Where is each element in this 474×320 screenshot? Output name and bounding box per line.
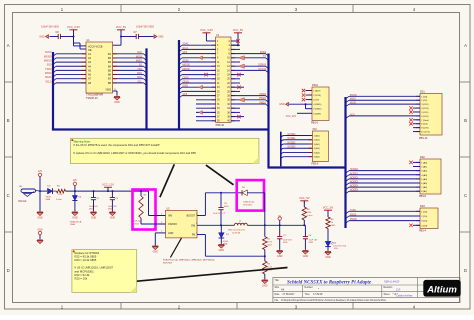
svg-text:PWM1: PWM1 (259, 98, 267, 100)
wire X1 pin 34 (231, 107, 235, 109)
bus left of U1 (52, 52, 54, 130)
wire BOOST (197, 215, 205, 217)
bus right of X1 (267, 54, 269, 168)
svg-text:MISO: MISO (136, 60, 142, 63)
svg-text:VCC_5V: VCC_5V (323, 206, 334, 210)
wire DS1 pin 2 (416, 99, 420, 101)
wire U1 B4 (113, 65, 144, 67)
wire DS3 pin 1 (416, 210, 420, 212)
wire DS1 pin 5 (416, 111, 420, 113)
wire L1 out (247, 224, 304, 226)
svg-text:RXD0: RXD0 (350, 214, 357, 216)
svg-text:10uF 50V 2.2: 10uF 50V 2.2 (213, 213, 226, 215)
svg-text:GND: GND (105, 88, 111, 91)
capacitor C3 (213, 192, 229, 227)
svg-text:1 (A0): 1 (A0) (421, 161, 427, 164)
wire X01 pin 1 (284, 135, 312, 137)
resistor R2 (134, 190, 147, 225)
svg-text:VCC_12V: VCC_12V (102, 183, 114, 187)
connector DS1 (419, 91, 442, 141)
wire DS2 pin 6 (416, 182, 420, 184)
wire DS2 pin 4 (416, 174, 420, 176)
svg-text:R22 = 95.3k 0805: R22 = 95.3k 0805 (75, 255, 97, 259)
power port 12V (tvs) (73, 180, 78, 192)
svg-text:1 (B07): 1 (B07) (313, 91, 320, 93)
svg-text:6 (A5): 6 (A5) (421, 182, 427, 185)
svg-text:GP4: GP4 (183, 52, 188, 54)
svg-text:R23 = 10.2k 0805: R23 = 10.2k 0805 (75, 258, 97, 262)
svg-text:BOOST: BOOST (187, 215, 196, 218)
svg-text:3 (7Y): 3 (7Y) (313, 100, 319, 102)
svg-text:PBS-4: PBS-4 (419, 229, 427, 232)
svg-text:RXD: RXD (137, 72, 142, 75)
svg-text:2 (GY5): 2 (GY5) (313, 95, 321, 97)
svg-text:GND: GND (303, 255, 309, 258)
svg-text:4 (A3): 4 (A3) (421, 174, 427, 177)
wire VCC_3.3V to U1 (73, 30, 75, 46)
connector DS3 (419, 205, 438, 232)
wire SW (197, 224, 235, 226)
wire U1 A3 (56, 61, 86, 63)
ground under jack (39, 191, 41, 211)
svg-text:2 (D1): 2 (D1) (421, 216, 427, 218)
regulator U2 (166, 207, 198, 238)
wire FB (197, 234, 205, 236)
svg-text:MOSI: MOSI (350, 103, 356, 105)
wire X1 pin 12 (231, 61, 235, 63)
wire X01 pin 6 (284, 156, 312, 158)
gnd port right of C7 (154, 35, 164, 39)
wire X1 pin 33 (212, 107, 216, 109)
svg-text:Schield NCS5XX to Raspberry Pi: Schield NCS5XX to Raspberry Pi Adapte (287, 280, 372, 285)
svg-text:PWD0: PWD0 (259, 94, 266, 96)
power flag VCC_12V (102, 183, 114, 191)
wire DS2 pin 2 (416, 166, 420, 168)
svg-text:VCCA VCCB: VCCA VCCB (88, 45, 103, 48)
wire X1 pin 15 (212, 69, 216, 71)
svg-text:and MCP16301:: and MCP16301: (75, 269, 95, 273)
svg-text:A4: A4 (281, 288, 285, 292)
wire X1 pin 21 (212, 82, 216, 84)
svg-text:2.0: 2.0 (395, 288, 401, 292)
resistor R3 0 ohm (299, 196, 313, 226)
svg-text:3 (A2): 3 (A2) (314, 143, 320, 146)
wire PS01 pin 3 (306, 99, 313, 101)
ground under U2 (152, 244, 158, 253)
capacitor C1 (89, 190, 100, 211)
wire DS1 pin 7 (416, 119, 420, 121)
wire U1 B8 (113, 82, 144, 84)
wire DS2 pin 7 (416, 186, 420, 188)
svg-text:SMD 10.0x10.0mm: SMD 10.0x10.0mm (228, 230, 245, 232)
svg-text:RXD0: RXD0 (260, 52, 267, 54)
wire U1 A1 (56, 53, 86, 55)
wire DS1 pin 10 (416, 131, 420, 133)
svg-text:MISO0: MISO0 (183, 69, 191, 71)
resistor R1 0 ohm (53, 186, 66, 201)
svg-text:GND: GND (219, 249, 225, 252)
svg-text:1: 1 (161, 231, 162, 233)
svg-text:SS0: SS0 (47, 64, 52, 67)
power flag VCC_5V (X1) (233, 28, 244, 36)
bus left of X1 (178, 40, 180, 130)
svg-text:Number: Number (305, 286, 313, 289)
svg-text:97.3k: 97.3k (267, 242, 272, 244)
wire DS2 pin 5 (416, 178, 420, 180)
wire X1 pin 9 (212, 57, 216, 59)
wire X1 pin 28 (231, 95, 235, 97)
wire DS2 pin 3 (416, 170, 420, 172)
wire D5 to output (247, 192, 264, 194)
svg-text:MISO: MISO (350, 99, 356, 101)
title block (273, 278, 460, 303)
svg-text:1 (D0): 1 (D0) (421, 211, 427, 213)
wire DS3 pin 3 (416, 220, 420, 222)
wire U1 GND pin 11 (113, 90, 117, 92)
svg-text:GND: GND (114, 101, 120, 104)
svg-text:VCC_5V: VCC_5V (299, 196, 310, 200)
svg-text:27.08.2017: 27.08.2017 (283, 293, 296, 296)
wire X1 pin 8 (231, 53, 235, 55)
svg-text:DCRX0: DCRX0 (258, 65, 267, 67)
svg-text:PS01: PS01 (312, 84, 319, 87)
svg-text:B: B (464, 118, 467, 123)
svg-text:Altium: Altium (426, 284, 457, 295)
bus DS column (344, 97, 346, 228)
svg-text:D: D (464, 268, 467, 273)
svg-text:Sheet: Sheet (384, 293, 390, 296)
wire DS2 pin 1 (416, 161, 420, 163)
wire U1 A2 (56, 57, 86, 59)
svg-text:4 (A3): 4 (A3) (314, 147, 320, 150)
wire X1 pin 37 (212, 116, 216, 118)
svg-text:RXD0: RXD0 (45, 72, 52, 75)
svg-text:1 (A0): 1 (A0) (314, 135, 320, 138)
svg-text:MISO0: MISO0 (44, 60, 52, 63)
wire DS1 pin 1 (416, 95, 420, 97)
svg-text:DS2: DS2 (420, 156, 425, 159)
svg-text:PBS-6: PBS-6 (311, 121, 319, 124)
svg-text:GND: GND (158, 36, 164, 39)
svg-text:0 ohm: 0 ohm (56, 199, 62, 201)
svg-text:5 (GND): 5 (GND) (313, 109, 321, 111)
wire DS1 pin 4 (416, 107, 420, 109)
svg-text:7 (A6): 7 (A6) (421, 186, 427, 189)
svg-text:A: A (7, 43, 10, 48)
svg-text:GND: GND (91, 216, 97, 219)
svg-text:R22 = 52.3k: R22 = 52.3k (75, 273, 91, 277)
svg-text:VCC_5V: VCC_5V (116, 25, 127, 29)
svg-text:5 (A4): 5 (A4) (314, 151, 320, 154)
wire X1 pin 10 (231, 57, 235, 59)
svg-text:SMA: SMA (70, 223, 75, 226)
wire X1 pin 18 (231, 74, 235, 76)
note warning (71, 138, 259, 163)
wire X1 pin 36 (231, 111, 235, 113)
svg-text:MOSI0: MOSI0 (44, 55, 52, 58)
highlight box D5 (237, 180, 264, 211)
svg-text:GND: GND (39, 36, 45, 39)
wire X01 pin 2 (284, 139, 312, 141)
svg-text:TSSOP-20: TSSOP-20 (86, 97, 98, 100)
svg-text:*: * (318, 287, 319, 291)
wire X1 pin 39 (212, 120, 216, 122)
bus entry A01 (280, 132, 282, 167)
connector J1 DC jack (18, 186, 38, 203)
svg-text:GP5: GP5 (183, 94, 188, 96)
svg-text:6: 6 (196, 223, 197, 225)
note replace values (72, 250, 137, 293)
svg-text:3 (D2): 3 (D2) (421, 221, 427, 223)
svg-text:Revision: Revision (384, 287, 394, 289)
svg-text:SCK: SCK (350, 114, 355, 116)
svg-text:NODE4: NODE4 (350, 186, 359, 188)
power flag VCC_3.3V (U1) (67, 25, 80, 33)
svg-text:DCTX0: DCTX0 (258, 69, 266, 71)
svg-text:0 ohm: 0 ohm (307, 215, 313, 217)
bus to right connectors (268, 166, 346, 168)
wire X1 pin 4 (231, 44, 235, 46)
svg-text:TX: TX (263, 56, 266, 58)
wire X1 pin 14 (231, 65, 235, 67)
wire U1 A6 (56, 74, 86, 76)
svg-text:VCC_3.3V: VCC_3.3V (67, 25, 80, 29)
svg-text:CE0N: CE0N (183, 77, 189, 79)
svg-text:8: 8 (196, 213, 197, 215)
svg-text:6 (D15): 6 (D15) (421, 116, 429, 118)
ground under D1 (218, 243, 224, 252)
svg-text:1 (D0): 1 (D0) (421, 96, 427, 98)
gnd port left of C8 (39, 35, 48, 39)
wire X1 pin 17 (212, 74, 216, 76)
svg-text:SCL1: SCL1 (183, 48, 189, 50)
svg-text:4 (D3): 4 (D3) (421, 225, 427, 227)
svg-text:PBS-10: PBS-10 (419, 137, 428, 140)
svg-text:SOT23-8: SOT23-8 (163, 262, 173, 264)
wire X1 pin 32 (231, 103, 235, 105)
svg-text:Date: Date (275, 293, 281, 296)
wire PS01 pin 6 VCC_12V (297, 112, 312, 114)
svg-text:GND: GND (325, 256, 331, 259)
svg-text:R23 = 10k: R23 = 10k (75, 277, 88, 281)
power flag VCC_5V (U1) (116, 25, 127, 33)
wire DS1 pin 3 (416, 103, 420, 105)
wire X1 pin 25 (212, 90, 216, 92)
Altium logo (423, 280, 460, 297)
resistor R4 (323, 206, 336, 242)
svg-text:PWD1: PWD1 (259, 102, 266, 104)
svg-text:MOSI0: MOSI0 (183, 65, 191, 67)
svg-text:If the U5 IC RT8278 is used, t: If the U5 IC RT8278 is used, the compone… (74, 143, 161, 147)
svg-text:X01: X01 (312, 128, 317, 131)
LED D2 (325, 241, 346, 250)
wire X1 pin 38 (231, 116, 235, 118)
capacitor C7 out (277, 225, 292, 249)
wire X01 pin 3 (284, 143, 312, 145)
svg-text:1k: 1k (331, 222, 333, 224)
svg-text:VCC_12V: VCC_12V (286, 116, 297, 118)
wire U1 B6 (113, 74, 144, 76)
wire DS3 pin 2 (416, 215, 420, 217)
svg-text:10 (D71): 10 (D71) (421, 132, 430, 134)
wire X1 pin 3 (212, 44, 216, 46)
svg-text:TXD0: TXD0 (350, 210, 357, 212)
svg-text:NODE0: NODE0 (288, 134, 297, 136)
wire U1 A7 (56, 78, 86, 80)
inductor L1 (228, 220, 247, 234)
bus horizontal main (52, 128, 269, 130)
svg-text:NODE1: NODE1 (288, 138, 297, 140)
svg-text:GND: GND (279, 103, 285, 106)
wire PS01 pin 2 (306, 94, 313, 96)
svg-text:5 (A4): 5 (A4) (421, 178, 427, 181)
wire PS01 gnd pins (289, 103, 312, 105)
leader note to D5 (206, 165, 234, 185)
wire X1 pin 26 (231, 90, 235, 92)
wire X1 pin 11 (212, 61, 216, 63)
wire U1 B2 (113, 57, 144, 59)
svg-text:GND: GND (277, 255, 283, 258)
svg-text:3: 3 (161, 222, 162, 224)
svg-text:GND: GND (72, 216, 78, 219)
svg-text:12V: 12V (38, 171, 43, 173)
svg-text:TXD0: TXD0 (45, 68, 52, 71)
leader to U2 (170, 238, 181, 258)
svg-text:8 (Ind): 8 (Ind) (421, 124, 428, 126)
wire X1 pin 27 (212, 95, 216, 97)
capacitor C7 (121, 25, 155, 39)
resistor R5 divider top (263, 225, 273, 257)
wire U2 GND (155, 232, 165, 234)
svg-text:NODE3: NODE3 (350, 182, 359, 184)
wire U1 B1 (113, 53, 144, 55)
wire X1 pin 24 (231, 86, 235, 88)
svg-text:3 (A2): 3 (A2) (421, 170, 427, 173)
connector X1 PBD-40 (216, 34, 231, 127)
svg-text:100nF 50V 0603: 100nF 50V 0603 (136, 25, 154, 28)
svg-text:4: 4 (161, 213, 162, 215)
wire ON/OFF (141, 223, 166, 225)
svg-text:2 (A1): 2 (A1) (314, 139, 320, 142)
wire X1 pin 7 (212, 53, 216, 55)
power flag VCC_3.3V (X1) (200, 28, 213, 36)
svg-text:GND: GND (168, 232, 174, 235)
svg-text:6 (5DR): 6 (5DR) (313, 113, 321, 115)
wire X1 pin 22 (231, 82, 235, 84)
svg-text:D: D (7, 268, 10, 273)
wire U1 B5 (113, 69, 144, 71)
svg-text:RT8279 (or 0pt: LMR12010, LMR1: RT8279 (or 0pt: LMR12010, LMR12007, MCP1… (163, 258, 215, 261)
svg-text:5: 5 (196, 232, 197, 234)
capacitor C8 (41, 25, 73, 39)
svg-text:Title: Title (275, 279, 280, 282)
main 12V wire (39, 190, 47, 192)
svg-text:GND: GND (37, 216, 43, 219)
svg-text:7 (Gnd): 7 (Gnd) (421, 120, 429, 122)
svg-text:SOD-80C: SOD-80C (243, 204, 253, 206)
svg-text:10uF 16V: 10uF 16V (283, 239, 292, 241)
bus right of U1 (145, 48, 147, 129)
wire X1 pin 40 (231, 120, 235, 122)
svg-text:SCL0: SCL0 (45, 80, 52, 83)
svg-text:PWD0: PWD0 (350, 219, 357, 221)
svg-text:PBD-40: PBD-40 (216, 124, 225, 127)
svg-text:100nF 50V 0603: 100nF 50V 0603 (41, 25, 59, 28)
svg-text:GBA & A4/20: GBA & A4/20 (384, 280, 400, 284)
highlight box R2 (133, 190, 156, 230)
resistor R6 divider bottom (263, 256, 273, 279)
svg-text:4 (GND): 4 (GND) (313, 104, 321, 106)
svg-text:Cattha Amfrey: Cattha Amfrey (396, 294, 413, 298)
svg-text:4 (D13): 4 (D13) (421, 108, 429, 110)
svg-text:SDA1: SDA1 (183, 43, 190, 46)
diode D3 SS38 (46, 186, 53, 202)
svg-text:OE: OE (88, 49, 92, 52)
svg-text:NODE2: NODE2 (288, 142, 297, 144)
diode D5 (242, 187, 255, 206)
wire boost node (204, 193, 206, 216)
svg-text:10uF 16V: 10uF 16V (309, 239, 318, 241)
wire DS1 pin 6 (416, 115, 420, 117)
svg-text:Replace for RT8218: Replace for RT8218 (75, 251, 100, 255)
wire X1 pin 31 (212, 103, 216, 105)
svg-text:5 (D11): 5 (D11) (421, 112, 428, 114)
svg-text:FB: FB (192, 234, 195, 237)
svg-text:GND: GND (262, 284, 268, 287)
TVS diode D4 SMAJ15CA (70, 191, 82, 226)
svg-text:2 (A1): 2 (A1) (421, 166, 427, 169)
wire X1 pin 5 (212, 48, 216, 50)
svg-text:PBS-8: PBS-8 (419, 195, 427, 198)
svg-text:3 (D12): 3 (D12) (421, 104, 429, 106)
svg-text:10K 0pt: 10K 0pt (134, 220, 142, 223)
svg-text:SDA: SDA (137, 76, 142, 79)
svg-text:9 (D70): 9 (D70) (421, 128, 429, 130)
svg-text:DS1: DS1 (420, 91, 425, 94)
op-amp U1 TXS0108EPWR (86, 39, 113, 100)
svg-text:B: B (7, 118, 10, 123)
svg-text:PWDC: PWDC (350, 95, 357, 97)
svg-text:If U5 IC LMR12010, LMR12007: If U5 IC LMR12010, LMR12007 (75, 266, 114, 270)
diode D1 SS34 (219, 225, 230, 245)
wire U1 A4 (56, 65, 86, 67)
svg-text:SS: SS (139, 64, 143, 67)
svg-text:TXD: TXD (137, 68, 142, 71)
wire X1 pin 6 (231, 48, 235, 50)
power port 12V (jack) (38, 171, 43, 191)
svg-text:A: A (464, 43, 467, 48)
svg-text:ON/OFF: ON/OFF (168, 223, 178, 226)
svg-text:C: C (464, 193, 467, 198)
power port 5V output (278, 215, 282, 226)
ground under D4 (72, 210, 78, 219)
svg-text:6 (A5): 6 (A5) (314, 156, 320, 159)
svg-text:SCL: SCL (137, 80, 142, 83)
wire U1 B7 (113, 78, 144, 80)
wire X1 pin 20 (231, 78, 235, 80)
wire R1 to VIN (66, 190, 149, 192)
wire DS1 pin 8 (416, 123, 420, 125)
svg-text:File:: File: (275, 300, 280, 302)
ground under R6 (262, 278, 268, 287)
wire X1 pin 35 (212, 111, 216, 113)
gnd port PS01 (279, 102, 288, 106)
svg-text:2 (D1): 2 (D1) (421, 100, 427, 102)
svg-text:NODE2: NODE2 (350, 177, 359, 179)
capacitor C2 (108, 190, 119, 211)
svg-text:10uH 3A: 10uH 3A (232, 231, 240, 234)
wire PS01 pin 1 (306, 90, 313, 92)
